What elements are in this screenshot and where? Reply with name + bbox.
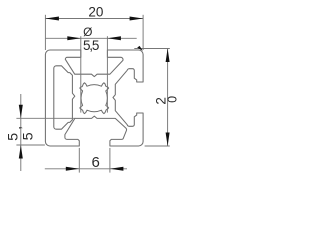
svg-text:,: , — [9, 126, 24, 130]
dia 5.5 left extension through profile — [80, 36, 82, 112]
left dim 5,5: bottom extension — [16, 144, 45, 146]
svg-text:Ø: Ø — [83, 25, 92, 39]
arrow left5.5 up — [19, 145, 23, 159]
arrow bottom6 left — [66, 167, 80, 171]
closed left chamber — [54, 66, 75, 129]
bottom dim 6: left extension — [78, 148, 80, 173]
svg-text:5: 5 — [5, 133, 20, 141]
left dim 5,5: dimension line — [20, 94, 22, 171]
profile outer contour with three open T-slots — [45, 50, 143, 146]
svg-text:5: 5 — [20, 132, 35, 140]
arrow right20 bottom — [166, 133, 170, 147]
left dim 5,5: top extension — [16, 117, 75, 119]
dia 5.5 right extension through profile — [106, 36, 108, 112]
arrow top20 left — [45, 17, 59, 21]
arrow bottom6 right — [110, 167, 124, 171]
arrow dia5.5 left — [67, 36, 81, 40]
arrow left5.5 down — [19, 105, 23, 119]
right dim 20: bottom extension — [145, 145, 170, 147]
small tick at top-right corner — [137, 46, 143, 51]
svg-text:5,5: 5,5 — [83, 38, 99, 53]
top dim 20: dimension line — [45, 18, 143, 20]
arrow right20 top — [166, 49, 170, 63]
top dim 20: right extension — [142, 15, 144, 50]
svg-text:20: 20 — [88, 4, 103, 19]
svg-text:0: 0 — [166, 96, 180, 103]
dia 5.5 dim line — [46, 37, 137, 39]
center bore, dia 5.5 with corner notches — [80, 83, 109, 114]
arrow dia5.5 right — [107, 36, 121, 40]
bottom dim 6: dimension line — [45, 168, 127, 170]
top dim 20: left extension — [44, 15, 46, 50]
svg-text:6: 6 — [92, 154, 100, 171]
arrow top20 right — [130, 17, 144, 21]
right dim 20: dimension line — [167, 49, 169, 147]
right dim 20: top extension — [134, 48, 170, 50]
bottom dim 6: right extension — [109, 148, 111, 173]
